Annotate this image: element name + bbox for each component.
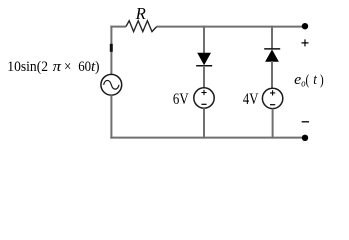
svg-text:): ) [95, 59, 100, 75]
6V source plus sign [201, 90, 206, 95]
output minus sign [302, 121, 309, 123]
svg-text:t: t [313, 72, 317, 88]
output voltage label eo(t) [294, 72, 324, 90]
diode D1 cathode bar [196, 65, 212, 67]
svg-text:10sin(2: 10sin(2 [7, 59, 48, 75]
4V source plus sign [270, 90, 275, 95]
node dot output top [302, 23, 308, 29]
4V source circle [262, 88, 282, 108]
resistor R zigzag [126, 21, 157, 32]
node dot output bottom [302, 135, 308, 141]
svg-text:π: π [53, 59, 62, 75]
AC source V1 circle [101, 74, 122, 95]
wire left vertical (top corner down to AC source) [110, 26, 112, 75]
diode D2 cathode bar [264, 48, 280, 50]
wire left vertical (AC source to bottom wire) [110, 95, 112, 138]
4V source minus sign [270, 104, 275, 106]
AC source value label 10sin(2 pi x 60t) [7, 59, 99, 75]
svg-text:(: ( [306, 72, 310, 88]
svg-text:6V: 6V [173, 89, 189, 108]
6V source circle [194, 88, 214, 108]
wire 6V source to bottom [203, 108, 205, 138]
wire right branch top [271, 26, 273, 49]
wire top-left horizontal (corner to resistor) [110, 26, 126, 28]
wire diode D1 to 6V source [203, 66, 205, 88]
diode D2 (pointing up) triangle [266, 50, 278, 61]
wire 4V source to bottom [272, 109, 274, 139]
AC source sine wave [104, 80, 119, 89]
wire top horizontal (resistor to right node) [157, 26, 305, 28]
wire bottom horizontal [110, 137, 305, 139]
thick dash mark on left wire [110, 44, 113, 52]
output plus sign [302, 39, 309, 46]
6V source minus sign [201, 103, 206, 105]
svg-text:): ) [320, 72, 324, 88]
svg-text:R: R [135, 4, 146, 23]
diode D1 (pointing down) triangle [198, 53, 210, 64]
wire diode D2 to 4V source [271, 61, 273, 88]
wire middle branch top [203, 26, 205, 54]
svg-text:4V: 4V [243, 89, 259, 108]
svg-text:×: × [64, 59, 71, 75]
svg-text:60: 60 [78, 59, 91, 75]
